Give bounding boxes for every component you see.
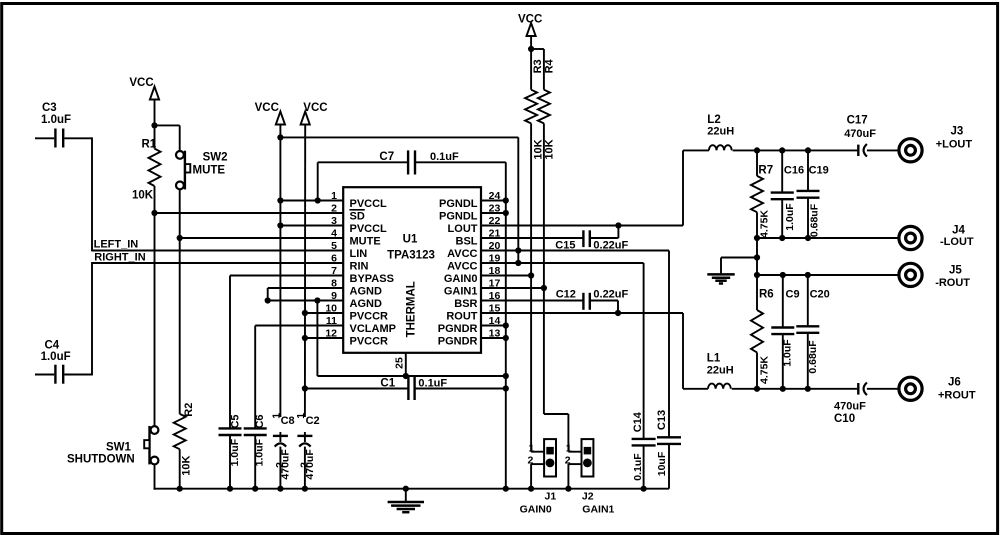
wire pin 7 (BYPASS) to C5 — [230, 276, 344, 429]
svg-text:VCC: VCC — [129, 77, 153, 89]
resistor R6 — [751, 275, 763, 389]
svg-text:RIGHT_IN: RIGHT_IN — [94, 251, 145, 263]
junction C12/ROUT — [615, 310, 621, 316]
label C20 — [810, 289, 830, 301]
svg-text:1.0uF: 1.0uF — [41, 351, 71, 363]
wire C7 right (PGND side) — [415, 161, 506, 163]
svg-text:GAIN0: GAIN0 — [520, 503, 552, 515]
junction PGND/rail — [503, 486, 509, 492]
junction R1/SD — [151, 210, 157, 216]
wire VCC PVCCR column — [304, 124, 306, 417]
wire pin 15 (ROUT) — [481, 313, 683, 389]
value label R4 10K — [544, 139, 556, 159]
pin 11 (VCLAMP) number and name — [326, 315, 396, 335]
junction GAIN0 pin 18 — [528, 272, 534, 278]
svg-text:AGND: AGND — [350, 298, 382, 310]
svg-text:VCC: VCC — [255, 102, 279, 114]
pin 1 (PVCCL) number and name — [331, 190, 387, 210]
junction C6/rail — [252, 486, 258, 492]
node LEFT_IN — [94, 239, 139, 251]
wire VCC PVCCL column — [279, 124, 281, 417]
svg-text:PGNDL: PGNDL — [439, 211, 478, 223]
value label R3 10K — [532, 139, 544, 159]
junction ground/rail — [403, 486, 409, 492]
wire pin 1 (PVCCL) — [280, 200, 344, 202]
pin 6 (RIN) number and name — [331, 253, 368, 273]
connector J3 — [899, 139, 922, 162]
svg-text:470uF: 470uF — [844, 128, 876, 140]
capacitor C16 — [771, 150, 794, 238]
pin labels J1 1/2 — [528, 443, 535, 467]
svg-text:BSR: BSR — [454, 298, 477, 310]
svg-text:C13: C13 — [656, 410, 668, 430]
svg-text:10: 10 — [325, 303, 337, 315]
label L2 22uH — [707, 114, 734, 138]
svg-text:BSL: BSL — [456, 236, 478, 248]
wire pin 18 (GAIN0) — [481, 275, 531, 277]
wire C1 to PGND bus — [415, 388, 506, 390]
junction VCC/R1/SW2 — [151, 122, 157, 128]
junction C9/-ROUT — [780, 272, 786, 278]
svg-text:23: 23 — [489, 203, 501, 215]
pin 13 (PGNDR) number and name — [438, 328, 501, 348]
svg-text:GAIN1: GAIN1 — [582, 503, 614, 515]
value label R1 10K — [132, 190, 154, 202]
value label C8 470uF — [280, 449, 292, 480]
svg-text:C7: C7 — [379, 151, 394, 163]
junction SW2/MUTE/R2 — [177, 235, 183, 241]
ground symbol (output) — [707, 274, 734, 283]
svg-text:AVCC: AVCC — [447, 261, 477, 273]
wire pin 12 (PVCCR) — [305, 337, 344, 339]
wire pin 13 stub — [481, 337, 506, 339]
resistor R3 — [525, 90, 537, 124]
pin 18 (GAIN0) number and name — [444, 265, 501, 285]
junction C15/LOUT — [615, 222, 621, 228]
wire C15 to LOUT — [590, 226, 619, 239]
svg-text:VCC: VCC — [303, 102, 327, 114]
svg-text:4.75K: 4.75K — [759, 356, 771, 384]
svg-text:PGNDR: PGNDR — [438, 336, 478, 348]
capacitor C10 (470uF) — [858, 383, 867, 396]
svg-text:C17: C17 — [847, 115, 868, 127]
switch SW1 — [144, 426, 158, 464]
wire pin 10 (PVCCR) — [305, 312, 344, 314]
label L1 22uH — [707, 353, 734, 377]
svg-text:4: 4 — [331, 228, 337, 240]
junction R6/-ROUT — [754, 272, 760, 278]
label THERMAL — [406, 281, 418, 337]
power VCC (PVCCL) — [255, 102, 285, 125]
pin 25 thermal pad stub — [394, 353, 406, 376]
label C13 — [656, 410, 668, 430]
svg-text:C10: C10 — [834, 413, 855, 425]
wire SW2 to pin 4 junction — [179, 189, 181, 238]
label SW2 MUTE — [193, 152, 228, 177]
svg-text:PVCCL: PVCCL — [350, 223, 388, 235]
label R6 — [759, 289, 774, 301]
IC U1 TPA3123 body — [343, 187, 481, 353]
resistor R7 — [751, 150, 763, 238]
wire pin 2 (SD) — [155, 212, 345, 214]
value label C3 1.0uF — [41, 102, 71, 126]
svg-text:MUTE: MUTE — [350, 236, 381, 248]
wire pin 8 (AGND) — [268, 288, 344, 301]
pin 14 (PGNDR) number and name — [438, 315, 501, 335]
wire L1 to C10 — [732, 388, 857, 390]
wire SD column down to SW1 — [154, 213, 156, 427]
label R3 — [532, 59, 544, 73]
wire C17 to J3 — [867, 149, 898, 151]
svg-text:PGNDR: PGNDR — [438, 323, 478, 335]
pin 22 (LOUT) number and name — [448, 215, 501, 235]
label C2 — [306, 415, 320, 427]
svg-text:0.22uF: 0.22uF — [593, 289, 628, 301]
svg-text:7: 7 — [331, 265, 337, 277]
value label C6 1.0uF — [254, 438, 266, 466]
svg-text:GAIN0: GAIN0 — [444, 273, 478, 285]
junction AVCC pin 19 — [515, 260, 521, 266]
wire pin 23 stub — [481, 212, 506, 214]
label J4 -LOUT — [940, 225, 974, 249]
pin 20 (AVCC) number and name — [447, 240, 500, 260]
svg-text:J3: J3 — [951, 126, 964, 138]
junction C14/rail — [641, 486, 647, 492]
svg-text:2: 2 — [565, 454, 571, 466]
svg-text:SD: SD — [350, 211, 365, 223]
svg-text:C1: C1 — [380, 378, 395, 390]
svg-text:1.0uF: 1.0uF — [784, 203, 796, 231]
label J3 +LOUT — [936, 126, 973, 151]
svg-text:U1: U1 — [403, 234, 418, 246]
svg-text:0.1uF: 0.1uF — [632, 453, 644, 481]
label TPA3123 — [387, 250, 435, 262]
value label C2 470uF — [304, 449, 316, 480]
junction C8/rail — [277, 486, 283, 492]
capacitor C14 — [632, 439, 656, 489]
svg-text:0.1uF: 0.1uF — [418, 378, 447, 390]
label J1 GAIN0 — [520, 491, 557, 516]
junction L1/R6 — [754, 386, 760, 392]
svg-text:C3: C3 — [42, 102, 57, 114]
junction ground branch — [754, 254, 760, 260]
label J6 +ROUT — [938, 377, 976, 402]
junction C7/pin 1 — [315, 197, 321, 203]
svg-text:22uH: 22uH — [707, 126, 734, 138]
label C14 — [632, 411, 644, 432]
svg-text:R2: R2 — [183, 403, 195, 417]
capacitor C15 — [583, 230, 589, 247]
svg-text:470uF: 470uF — [304, 449, 316, 480]
junction L1/C9 — [780, 386, 786, 392]
svg-text:LOUT: LOUT — [448, 223, 478, 235]
svg-text:2: 2 — [528, 454, 534, 466]
svg-text:1.0uF: 1.0uF — [229, 438, 241, 466]
svg-text:J6: J6 — [948, 377, 961, 389]
pin 5 (LIN) number and name — [331, 240, 367, 260]
label J5 -ROUT — [935, 265, 970, 290]
svg-text:3: 3 — [331, 215, 337, 227]
value label C20 0.68uF — [807, 340, 819, 374]
svg-text:C16: C16 — [784, 165, 804, 177]
svg-text:6: 6 — [331, 253, 337, 265]
label U1 — [403, 234, 418, 246]
svg-text:SW2: SW2 — [203, 152, 228, 164]
junction AGND/PGND bus — [503, 373, 509, 379]
value label C16 1.0uF — [784, 203, 796, 231]
label R2 — [183, 403, 195, 417]
label C7 — [379, 151, 394, 163]
capacitor C5 — [219, 428, 242, 488]
svg-text:13: 13 — [489, 328, 501, 340]
ground symbol (main) — [388, 489, 424, 513]
pin 3 (PVCCL) number and name — [331, 215, 387, 235]
capacitor C6 — [244, 428, 267, 488]
wire L2 to C17 — [733, 149, 858, 151]
value label C5 1.0uF — [229, 438, 241, 466]
wire GAIN0 column — [530, 123, 532, 451]
value label C14 0.1uF — [632, 453, 644, 481]
wire pin 3 (PVCCL) — [280, 225, 344, 227]
svg-text:-LOUT: -LOUT — [940, 236, 974, 248]
wire pin 9 (AGND) — [268, 300, 344, 302]
wire R2 column — [179, 238, 181, 489]
svg-text:1: 1 — [566, 443, 572, 455]
pin 10 (PVCCR) number and name — [325, 303, 388, 323]
value label C9 1.0uF — [782, 339, 794, 367]
svg-text:25: 25 — [394, 357, 406, 369]
wire RIGHT_IN to pin 6 — [92, 262, 344, 264]
wire VCC branch to SW2 — [155, 125, 180, 151]
svg-text:L2: L2 — [707, 114, 720, 126]
value label C1 0.1uF — [418, 378, 447, 390]
wire PVCCR to C1 — [305, 388, 409, 390]
svg-text:9: 9 — [331, 290, 337, 302]
junction AGND pins 8/9 — [265, 297, 271, 303]
svg-text:THERMAL: THERMAL — [406, 281, 418, 337]
svg-text:1.0uF: 1.0uF — [41, 114, 71, 126]
node RIGHT_IN — [94, 251, 145, 263]
junction J1/rail — [528, 486, 534, 492]
jumper J2 — [568, 439, 593, 489]
value label R6 4.75K — [759, 356, 771, 384]
junction AVCC pin 20 — [515, 247, 521, 253]
pin labels C2 1/2 — [295, 413, 310, 468]
wire -ROUT to J5 — [757, 274, 898, 276]
pin labels C8 1/2 — [271, 413, 286, 468]
svg-text:J4: J4 — [952, 225, 965, 237]
junction PVCCR pin 12 — [302, 335, 308, 341]
junction PGND pin 24 — [503, 197, 509, 203]
value label R7 4.75K — [759, 210, 771, 238]
value label C19 0.68uF — [809, 203, 821, 237]
svg-text:R3: R3 — [532, 59, 544, 73]
pin 23 (PGNDL) number and name — [439, 203, 500, 223]
value label C13 10uF — [656, 451, 668, 476]
svg-text:470uF: 470uF — [834, 401, 866, 413]
power VCC (R1 rail) — [129, 77, 159, 100]
svg-text:0.68uF: 0.68uF — [807, 340, 819, 374]
wire pin 4 (MUTE) — [180, 237, 344, 239]
junction L1/C20 — [805, 386, 811, 392]
svg-text:AGND: AGND — [350, 286, 382, 298]
wire to output ground — [721, 258, 757, 274]
label C10 470uF — [834, 401, 866, 426]
svg-text:8: 8 — [331, 278, 337, 290]
junction L2/R7 — [754, 147, 760, 153]
junction GAIN1 pin 17 — [541, 285, 547, 291]
capacitor C2 (470uF electrolytic) — [297, 432, 312, 489]
wire C7 left (pin 1 side) — [318, 162, 408, 200]
junction PVCCR/C1 rail — [302, 385, 308, 391]
svg-text:+ROUT: +ROUT — [938, 390, 976, 402]
junction C5/rail — [227, 486, 233, 492]
junction C20/-ROUT — [805, 272, 811, 278]
junction PVCCL pin 1 — [277, 197, 283, 203]
wire VCC to R3 — [530, 36, 532, 90]
label C6 — [254, 414, 266, 428]
capacitor C4 — [35, 365, 92, 384]
pin 4 (MUTE) number and name — [331, 228, 381, 248]
wire VCC branch to R4 — [531, 49, 544, 90]
pin 19 (AVCC) number and name — [447, 253, 500, 273]
capacitor C3 — [35, 129, 92, 148]
power VCC (PVCCR) — [301, 102, 328, 125]
capacitor C9 — [771, 275, 794, 389]
junction C16/-LOUT — [779, 235, 785, 241]
wire LEFT_IN to pin 5 — [92, 250, 344, 252]
wire pin 11 (VCLAMP) to C6 — [255, 326, 344, 429]
svg-text:C19: C19 — [809, 165, 829, 177]
svg-text:J1: J1 — [545, 491, 557, 503]
svg-text:RIN: RIN — [350, 261, 369, 273]
svg-text:PVCCL: PVCCL — [350, 198, 388, 210]
svg-text:C6: C6 — [254, 414, 266, 428]
wire pin 17 (GAIN1) — [481, 287, 544, 289]
wire C3 to LEFT_IN node — [91, 137, 93, 251]
capacitor C20 — [796, 275, 819, 389]
pin 2 (SD) number and name — [331, 203, 365, 223]
wire pin 24 stub — [481, 200, 506, 202]
svg-text:R1: R1 — [142, 139, 157, 151]
wire GAIN1 column — [544, 123, 569, 451]
connector J6 — [899, 377, 922, 400]
label R1 — [142, 139, 157, 151]
pin 21 (BSL) number and name — [456, 228, 501, 248]
connector J4 — [899, 226, 922, 249]
label C19 — [809, 165, 829, 177]
capacitor C17 (470uF) — [858, 144, 867, 157]
wire pin 21 (BSL) — [481, 237, 583, 239]
label SW1 SHUTDOWN — [67, 442, 135, 466]
svg-text:0.68uF: 0.68uF — [809, 203, 821, 237]
junction C1/PGND bus — [503, 385, 509, 391]
svg-text:4.75K: 4.75K — [759, 210, 771, 238]
pin 15 (ROUT) number and name — [446, 303, 500, 323]
wire VCC down to R1 — [154, 99, 156, 149]
svg-text:PVCCR: PVCCR — [350, 311, 389, 323]
wire R1 to pin 2 junction — [154, 186, 156, 213]
label C9 — [786, 289, 800, 301]
svg-text:11: 11 — [326, 315, 337, 327]
svg-text:C2: C2 — [306, 415, 320, 427]
svg-text:R4: R4 — [543, 58, 555, 73]
capacitor C19 — [797, 150, 820, 238]
wire C10 to J6 — [867, 388, 898, 390]
svg-text:J5: J5 — [949, 265, 962, 277]
junction PGND pin 23 — [503, 210, 509, 216]
svg-text:2: 2 — [331, 203, 337, 215]
pin 17 (GAIN1) number and name — [444, 278, 501, 298]
junction L2/C19 — [805, 147, 811, 153]
svg-text:24: 24 — [489, 190, 501, 202]
wire pin 22 (LOUT) — [481, 150, 683, 225]
junction C19/-LOUT — [805, 235, 811, 241]
label C16 — [784, 165, 804, 177]
junction R2/rail — [177, 486, 183, 492]
svg-text:+LOUT: +LOUT — [936, 139, 973, 151]
svg-text:LIN: LIN — [350, 248, 368, 260]
svg-text:ROUT: ROUT — [446, 311, 477, 323]
label C12 — [556, 289, 576, 301]
pin 9 (AGND) number and name — [331, 290, 382, 310]
pin 7 (BYPASS) number and name — [331, 265, 394, 285]
label C5 — [230, 414, 242, 428]
value label C4 1.0uF — [41, 340, 71, 364]
svg-text:10K: 10K — [132, 190, 154, 202]
svg-text:LEFT_IN: LEFT_IN — [94, 239, 139, 251]
svg-text:C5: C5 — [230, 414, 242, 428]
svg-text:10K: 10K — [532, 139, 544, 159]
resistor R4 — [538, 90, 550, 124]
inductor L1 — [708, 384, 731, 389]
wire PGND bus — [505, 162, 507, 488]
svg-text:12: 12 — [325, 328, 337, 340]
resistor R1 — [149, 149, 161, 186]
capacitor C8 (470uF electrolytic) — [273, 432, 288, 489]
wire LOUT to L2 — [683, 149, 709, 151]
wire AGND to thermal pad rail — [317, 301, 505, 377]
value label R2 10K — [181, 455, 193, 475]
label C15 — [555, 240, 575, 252]
svg-text:5: 5 — [331, 240, 337, 252]
pin 12 (PVCCR) number and name — [325, 328, 388, 348]
power VCC (gain pullups) — [518, 14, 542, 37]
svg-text:-ROUT: -ROUT — [935, 277, 970, 289]
svg-text:C14: C14 — [632, 411, 644, 432]
svg-text:TPA3123: TPA3123 — [387, 250, 435, 262]
label R4 — [543, 58, 555, 73]
junction VCC/R3/R4 — [528, 46, 534, 52]
svg-text:1: 1 — [529, 443, 535, 455]
svg-text:10K: 10K — [544, 139, 556, 159]
wire C12 to ROUT — [590, 301, 618, 314]
svg-text:PGNDL: PGNDL — [439, 198, 478, 210]
wire ROUT to L1 — [683, 388, 708, 390]
svg-text:L1: L1 — [707, 353, 721, 365]
wire pin 20 (AVCC) to C13 — [481, 251, 669, 438]
svg-text:10uF: 10uF — [656, 451, 668, 476]
junction VCC/AVCC feed — [277, 134, 283, 140]
value label C15 0.22uF — [593, 240, 628, 252]
svg-text:C8: C8 — [281, 415, 295, 427]
svg-text:BYPASS: BYPASS — [350, 273, 394, 285]
svg-text:AVCC: AVCC — [447, 248, 477, 260]
svg-text:10K: 10K — [181, 455, 193, 475]
svg-text:C9: C9 — [786, 289, 800, 301]
label C17 470uF — [844, 115, 876, 141]
junction C2/rail — [302, 486, 308, 492]
